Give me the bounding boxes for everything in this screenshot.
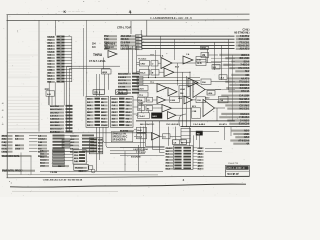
net label R8	[229, 84, 250, 87]
comb labels 1	[140, 123, 155, 126]
net label R18	[219, 116, 250, 119]
svg-text:C3+6-2: C3+6-2	[40, 160, 47, 162]
wire vertical x141b	[141, 102, 143, 113]
IC U41 box cluster	[89, 138, 103, 154]
op-amp U22	[157, 97, 166, 104]
net label THRU	[93, 53, 103, 57]
tick under zone marker 4	[130, 11, 132, 15]
wire U19 out	[211, 81, 228, 83]
wire stub right labels 3	[213, 64, 235, 66]
net label gate row 2	[160, 55, 164, 58]
wire U22 out	[166, 99, 170, 101]
gate U8 input box a	[140, 70, 150, 76]
wire vertical x159 comb down	[159, 121, 161, 153]
wire stub right labels 1	[211, 57, 235, 59]
net label gate row 1	[138, 58, 147, 60]
wire vertical x177	[177, 63, 179, 86]
IC U14 tall box	[179, 86, 190, 97]
net label E18	[131, 157, 141, 159]
border frame top line 1	[7, 13, 250, 16]
net label R14	[217, 101, 250, 104]
net label R13	[219, 98, 250, 101]
wire vertical x128	[127, 46, 129, 74]
svg-text:LB-2 M-2: LB-2 M-2	[50, 112, 59, 114]
gate U7 box CFB	[196, 60, 206, 66]
svg-text:SPEGGG AV·C: SPEGGG AV·C	[112, 136, 127, 139]
net label R11	[231, 74, 250, 77]
svg-text:A8-4 C3+6-2: A8-4 C3+6-2	[50, 127, 62, 130]
svg-text:LB-2 B2+6: LB-2 B2+6	[121, 48, 133, 51]
gate U6 input box a	[140, 61, 150, 67]
svg-text:AB-0 LS04 CS-1: AB-0 LS04 CS-1	[140, 123, 155, 126]
svg-text:AB-0): AB-0)	[2, 135, 8, 138]
wire from U2 down	[102, 58, 104, 70]
wire U29 out	[172, 107, 192, 109]
wire vertical x99 upper	[99, 74, 101, 96]
net label gate mid 3	[150, 82, 155, 84]
net label R3	[223, 64, 250, 67]
wire vertical x168 comb down	[168, 127, 170, 146]
resistor pack RP1 hatch	[62, 140, 70, 148]
op-amp U13	[168, 88, 177, 97]
wire vertical bus x39	[38, 21, 40, 132]
net label PWR NTRL	[2, 170, 35, 173]
svg-text:A8-4 7T-2: A8-4 7T-2	[118, 89, 128, 92]
wire vertical x155	[155, 50, 157, 78]
gate U9 box LS21	[138, 86, 148, 91]
net label left of U42	[58, 165, 69, 168]
op-amp U16 right	[183, 56, 193, 64]
wire vertical x189 comb down	[189, 127, 191, 146]
svg-text:M-2: M-2	[245, 70, 250, 73]
wire vertical x69	[69, 68, 71, 131]
svg-text:C3+6-2: C3+6-2	[38, 139, 46, 141]
bus line B1 with labels	[104, 38, 250, 41]
wire J2 out 1	[205, 148, 222, 150]
wire vertical x145 comb down	[145, 121, 147, 147]
svg-text:C/A: C/A	[220, 99, 224, 102]
svg-text:LS04): LS04)	[2, 151, 8, 154]
svg-text:C3+6-2: C3+6-2	[101, 125, 108, 127]
connector J2 header box	[173, 140, 187, 145]
wire U24 out	[193, 99, 197, 101]
wire vertical x190b	[190, 85, 192, 127]
wire vertical right x207	[207, 49, 209, 63]
gate U27 box	[138, 106, 145, 111]
svg-text:C3+6-2 7T-2: C3+6-2 7T-2	[228, 163, 239, 165]
comb labels 2	[166, 124, 181, 126]
wire CFB output	[206, 62, 221, 64]
border frame bottom line	[7, 176, 250, 178]
page edge faint line 2	[12, 190, 118, 192]
net label R9	[226, 87, 250, 90]
net label row L0	[2, 135, 71, 138]
wire vertical x125	[124, 151, 126, 172]
bus line B0 with labels	[104, 35, 250, 38]
op-amp U24	[184, 96, 193, 104]
wire horizontal y152 to J2	[160, 152, 165, 154]
wire horizontal y171	[40, 170, 163, 172]
gate U6 input box b	[151, 61, 158, 67]
svg-text:E1-8 C3-6: E1-8 C3-6	[239, 123, 250, 126]
op-amp U8	[164, 68, 174, 77]
wire stub U29 in	[153, 107, 163, 109]
faint pencil marks above top border	[58, 11, 85, 14]
gate U11 CS box	[201, 52, 218, 57]
svg-text:304): 304)	[2, 138, 6, 141]
wire stub U22 in	[153, 99, 158, 101]
svg-text:A=B: A=B	[137, 129, 142, 132]
wire U38 out	[170, 135, 181, 137]
op-amp U37	[152, 133, 161, 141]
net label LS POP rows	[133, 148, 148, 154]
svg-text:CRL 8: CRL 8	[94, 92, 101, 94]
net label row L1	[2, 138, 71, 141]
svg-text:C·A: C·A	[197, 59, 201, 62]
svg-text:LPC-1·035F·C: LPC-1·035F·C	[227, 167, 245, 170]
wire horizontal separator y133	[7, 132, 152, 134]
net label R19	[227, 119, 250, 122]
IC U33 box	[192, 108, 201, 119]
svg-text:7-40): 7-40)	[2, 144, 7, 147]
wire horizontal y55	[137, 54, 160, 56]
net label block mid rows	[70, 135, 94, 154]
svg-text:4A: 4A	[246, 143, 249, 146]
net label R22	[233, 133, 250, 136]
net label above U34	[205, 97, 210, 100]
svg-text:A8-4 R04: A8-4 R04	[50, 105, 59, 108]
page background	[0, 0, 251, 198]
wire stub DIP2 right 1	[134, 99, 140, 101]
wire elbow from U4 pin to right 2	[106, 127, 145, 147]
svg-text:E1-8): E1-8)	[2, 148, 7, 150]
wire stub U35 in	[134, 129, 137, 131]
gate U20 box	[138, 97, 146, 102]
svg-text:C6B: C6B	[192, 111, 196, 113]
svg-text:C3+6-2: C3+6-2	[47, 37, 55, 39]
wire vertical x83	[83, 28, 85, 96]
wire vertical x55 top	[55, 21, 57, 36]
svg-text:C3-6 7T-2: C3-6 7T-2	[118, 83, 128, 85]
wire vertical x217	[216, 108, 218, 121]
gate U10 TOP box	[201, 46, 209, 50]
svg-text:M-2 AT-9: M-2 AT-9	[219, 123, 228, 126]
svg-text:C3+6-2: C3+6-2	[137, 103, 144, 105]
connector J1 pin rows	[47, 36, 71, 84]
border frame left line	[6, 15, 8, 178]
svg-text:E1-8 R04: E1-8 R04	[120, 130, 129, 133]
svg-text:TOP: TOP	[201, 48, 206, 50]
net label gate mid 1	[150, 55, 155, 57]
net label row L5	[2, 150, 71, 153]
wire vertical x160	[160, 36, 162, 57]
wire vertical x152 comb down	[152, 121, 154, 150]
net label above U33	[192, 105, 197, 108]
gate U35 box A=B	[137, 127, 147, 132]
wire vertical x21	[20, 153, 22, 175]
svg-text:4.: 4.	[129, 10, 132, 14]
svg-text:CRL B: CRL B	[117, 92, 124, 94]
svg-text:C·A: C·A	[40, 150, 44, 153]
wire stub right labels 2	[211, 61, 235, 63]
svg-text:M-2 CS-1: M-2 CS-1	[239, 108, 250, 111]
svg-text:D-8 304: D-8 304	[118, 85, 126, 88]
svg-text:50 8 4P 4P: 50 8 4P 4P	[227, 173, 239, 176]
wire vertical right x214	[214, 42, 216, 70]
net label R5	[235, 70, 250, 73]
comb labels 4	[219, 123, 228, 126]
net label R24	[230, 139, 250, 142]
svg-text:LS( POP)·LS04: LS( POP)·LS04	[133, 148, 148, 151]
IC U5 header box	[116, 90, 128, 95]
wire stub DIP2 right 3	[134, 113, 140, 115]
faint scan ruling lines	[8, 55, 39, 129]
wire vertical x64	[63, 82, 65, 106]
op-amp U15 large	[193, 82, 205, 98]
svg-text:· · · · · · · · ·: · · · · · · · · · · · · · · ·· · · · ·	[58, 11, 85, 14]
wire stub U8 in a	[137, 70, 140, 72]
wire U6 output	[172, 62, 196, 64]
wire vertical x148	[148, 66, 150, 78]
scan speckle noise	[2, 0, 251, 196]
op-amp U6	[161, 58, 172, 69]
wire vertical joining J1 stubs	[71, 37, 73, 82]
net label R20	[229, 123, 250, 126]
wire horizontal y149 to J2	[153, 149, 165, 151]
bus line mid 3	[137, 83, 201, 85]
connector J3 rows	[40, 150, 65, 168]
wire stub U37 out	[160, 135, 163, 137]
net label row L4	[2, 147, 71, 150]
svg-text:C3+6-2: C3+6-2	[47, 52, 55, 54]
svg-text:C3+6-2: C3+6-2	[70, 136, 77, 138]
wire vertical x138	[138, 145, 140, 171]
wire vertical right x228	[228, 39, 230, 90]
gate U23 box	[170, 97, 180, 103]
svg-text:LB-2 AB-0: LB-2 AB-0	[50, 124, 60, 127]
wire U15 output	[205, 89, 221, 91]
gate U25 box C06	[196, 97, 206, 103]
net label column F rows	[50, 105, 73, 134]
op-amp U29	[162, 105, 172, 113]
wire U25 out	[206, 99, 219, 101]
net label R15	[225, 104, 250, 107]
svg-text:TAHXANXN RASL: TAHXANXN RASL	[2, 155, 21, 158]
wire U34 out	[215, 107, 226, 109]
wire vertical x143b	[143, 127, 145, 151]
svg-text:7T-2 LB-2: 7T-2 LB-2	[138, 58, 147, 60]
component K1 small relay block	[45, 88, 55, 105]
wire vertical x141	[140, 30, 142, 49]
svg-text:A8-4 LS04: A8-4 LS04	[118, 73, 129, 76]
svg-text:2-4 CS-1: 2-4 CS-1	[50, 115, 59, 118]
net label R6	[227, 77, 250, 80]
page edge line	[10, 184, 246, 187]
gate U31 dark box 2403	[152, 113, 163, 119]
op-amp U12	[157, 84, 167, 93]
svg-text:LS04: LS04	[47, 69, 53, 72]
svg-text:4 · LS-REGISTER FILE + ALU · C: 4 · LS-REGISTER FILE + ALU · C3 · 6	[150, 16, 192, 20]
border frame top line 2	[7, 19, 250, 22]
net label row L3	[2, 144, 71, 147]
wire vertical x86	[86, 21, 88, 97]
wire horizontal y147	[120, 147, 165, 149]
IC U5 body with pin rows	[111, 96, 134, 127]
svg-text:7-40 E1-8: 7-40 E1-8	[50, 118, 60, 121]
net label R10	[228, 90, 249, 93]
gate U30 box	[138, 113, 150, 119]
wire vertical right x221	[221, 45, 223, 80]
wire vertical x99	[99, 127, 101, 160]
net label R12	[221, 95, 250, 98]
svg-text:903 E1-8: 903 E1-8	[105, 47, 114, 49]
gate U9 box lower	[138, 92, 148, 97]
wire vertical x66	[66, 66, 68, 131]
bus line B2 with labels	[104, 41, 250, 44]
wire vertical x147	[146, 21, 148, 37]
svg-text:A8-4 R04: A8-4 R04	[50, 121, 59, 124]
bus comb line	[136, 120, 235, 122]
wire stub U32 out	[176, 114, 183, 116]
net label R2	[231, 60, 250, 63]
wire vertical x182	[182, 72, 184, 127]
net label R1	[225, 57, 250, 60]
svg-text:E1-8 B2+6: E1-8 B2+6	[50, 132, 61, 134]
net label R7	[225, 81, 250, 84]
net label dashed row bottom	[42, 179, 83, 182]
wire horizontal y66	[67, 65, 121, 67]
component PD dark blob	[196, 131, 203, 135]
wire vertical x140b	[140, 127, 142, 148]
net label right C3-6	[243, 28, 250, 31]
net label gate mid 2	[175, 66, 180, 68]
net label R21	[231, 130, 250, 133]
wire elbow from U4 pin to right 1	[103, 127, 145, 142]
wire vertical x199	[199, 135, 201, 148]
net label R25	[233, 143, 249, 146]
faint scan streak texture	[9, 22, 246, 171]
wire vertical right x232	[232, 55, 234, 121]
op-amp U32	[168, 112, 177, 120]
net label row TAHX	[2, 155, 48, 158]
svg-text:AT-9 4A: AT-9 4A	[241, 90, 250, 93]
wire stub U36 in	[134, 135, 137, 137]
net label under J3	[50, 171, 58, 174]
wire vertical x148b	[148, 111, 150, 113]
wire arc loop	[179, 114, 186, 127]
svg-text:7T-2 D-8: 7T-2 D-8	[75, 168, 84, 170]
IC U39 small connector box	[181, 128, 191, 142]
net label row under DIP2	[120, 130, 134, 133]
wire vertical x190	[189, 72, 191, 85]
wire horizontal y104	[137, 103, 162, 105]
wire vertical x31	[30, 156, 32, 175]
bus line B4 with labels	[104, 47, 250, 50]
wire vertical x193	[193, 135, 195, 152]
svg-text:SP SAGER·B: SP SAGER·B	[112, 139, 126, 142]
svg-text:PD: PD	[197, 133, 200, 135]
title block	[226, 165, 250, 176]
wire vertical x136	[136, 46, 138, 74]
svg-text:C3+6-2: C3+6-2	[166, 148, 173, 150]
IC U40 body with pin rows	[64, 150, 87, 164]
wire horizontal y68	[70, 67, 111, 69]
svg-text:C·A: C·A	[47, 54, 51, 57]
svg-text:C·A: C·A	[112, 104, 116, 107]
wire vertical x96 long	[96, 127, 98, 171]
svg-text:C·A): C·A)	[2, 141, 7, 144]
bus line mid 2	[137, 80, 201, 82]
bus line mid 1	[137, 77, 201, 79]
IC U4 header box	[93, 90, 105, 95]
svg-text:THRU: THRU	[93, 53, 103, 57]
gate U8 input box b	[151, 70, 159, 76]
wire horizontal y155	[120, 155, 165, 157]
svg-text:CFB: CFB	[197, 63, 202, 65]
component Q1 circle	[91, 169, 95, 173]
wire stub M3 in	[136, 115, 138, 117]
bus label row C1	[92, 43, 116, 46]
faint label above title block	[228, 163, 239, 165]
svg-text:C3+6-2: C3+6-2	[138, 116, 145, 118]
wire stub right labels 5	[215, 81, 235, 83]
gate U38 box	[163, 134, 171, 139]
net label R4	[229, 67, 250, 70]
gate U28 box	[146, 106, 153, 111]
gate U36 box	[137, 134, 147, 139]
net label gate mid 4	[178, 98, 183, 100]
wire stub U6 mid	[158, 62, 161, 64]
IC U4 body with pin rows	[86, 96, 109, 127]
title strip text along top border	[150, 16, 192, 20]
svg-text:2-4 AB-0: 2-4 AB-0	[118, 76, 127, 79]
wire stub U8 mid	[159, 71, 164, 73]
gate U19 box	[201, 79, 211, 85]
bus label row C2	[92, 47, 114, 49]
gate U2 buffer	[105, 47, 117, 58]
bus comb line 2	[181, 126, 250, 128]
wire vertical x96 upper	[96, 74, 98, 96]
bus line B3 with labels	[104, 44, 250, 47]
wire y131 right	[191, 131, 220, 133]
net label R23	[235, 136, 250, 139]
wire vertical x196 comb down	[196, 135, 198, 140]
svg-text:LS21: LS21	[139, 88, 145, 90]
svg-text:M-2 C·A: M-2 C·A	[118, 79, 126, 82]
zone marker 4 top	[129, 10, 132, 14]
component U43 small box	[89, 166, 93, 170]
wire vertical x49	[48, 82, 50, 106]
op-amp U34 large	[203, 100, 215, 117]
svg-text:SPAROLL·AV: SPAROLL·AV	[112, 133, 126, 136]
svg-text:CTR·L TO·P: CTR·L TO·P	[117, 25, 131, 29]
left margin row marks	[1, 102, 4, 126]
svg-text:PHA: PHA	[138, 99, 143, 102]
svg-text:PWR NTRL PROC·: PWR NTRL PROC·	[2, 170, 23, 173]
wire vertical x224	[224, 127, 226, 140]
wire vertical x174	[174, 39, 176, 60]
wire J2 out 2	[205, 151, 222, 153]
net label block under U4	[111, 132, 133, 142]
component U3 divider box	[102, 69, 112, 90]
gate U21 box	[147, 97, 153, 102]
border frame inner bottom line	[7, 174, 159, 176]
zone marker K top	[64, 10, 67, 14]
svg-text:LM: LM	[202, 55, 205, 57]
net label gate row 3	[186, 53, 190, 56]
gate U44 box	[212, 65, 220, 70]
svg-text:T·7T-2 R·P: T·7T-2 R·P	[136, 152, 146, 154]
